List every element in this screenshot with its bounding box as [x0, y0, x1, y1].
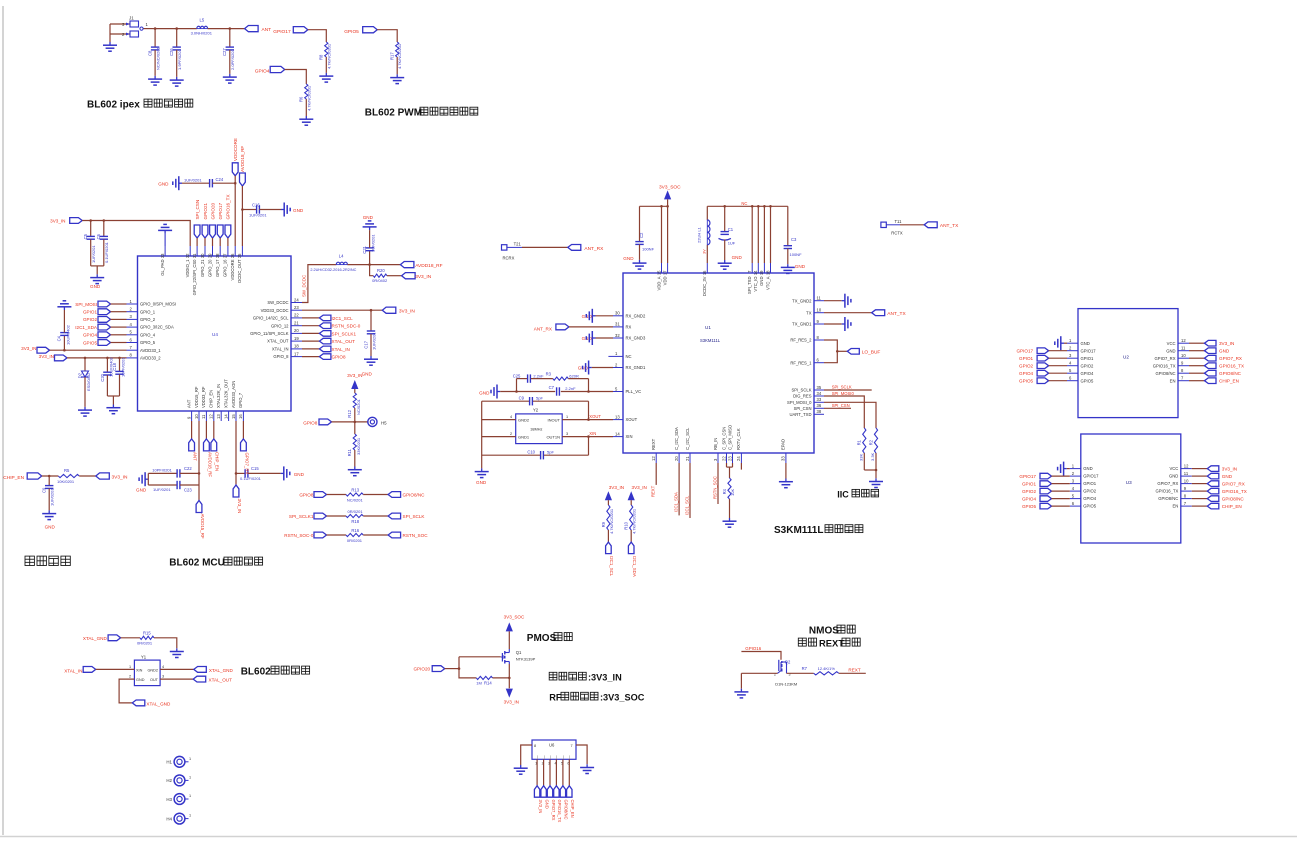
svg-text:R2: R2 [868, 439, 873, 445]
svg-text:11: 11 [201, 414, 206, 419]
wire L4 to AVDD18_RF [347, 263, 400, 266]
svg-text:SPI_TXD: SPI_TXD [747, 277, 752, 294]
svg-text:RSTN_SOC-0: RSTN_SOC-0 [284, 533, 314, 538]
wire 3V3_IN U3 right [1192, 468, 1208, 470]
port I2C1_SCL right [319, 315, 353, 321]
svg-text:ANT_RX: ANT_RX [534, 326, 552, 331]
port GPIO7_RX bottom [241, 439, 250, 475]
svg-text:GPIO21: GPIO21 [203, 202, 208, 219]
wire R18 right [363, 515, 388, 517]
svg-text:3V3_IN: 3V3_IN [538, 800, 543, 814]
wire J1 to net [110, 24, 155, 42]
wire SPI_SCLK1 [302, 332, 319, 334]
port GPIO7_RX u6 [547, 786, 556, 821]
svg-text:3V3_IN: 3V3_IN [112, 475, 129, 481]
port GPIO16_TX top [225, 194, 231, 238]
svg-text:RX_GND2: RX_GND2 [626, 313, 646, 318]
port RSTN_SOC-0 left [284, 532, 326, 538]
resistor R5 [57, 468, 79, 484]
capacitor C15 [236, 466, 281, 481]
svg-text:GND2: GND2 [518, 417, 530, 422]
wire SPI_CSN [824, 402, 876, 428]
wire R8 to ground [325, 57, 327, 73]
resistor R4 [722, 478, 735, 499]
svg-text:U3: U3 [1126, 480, 1132, 485]
wire GPIO8/NC U2 right [1189, 372, 1205, 374]
svg-text:1UF/0201: 1UF/0201 [249, 213, 267, 218]
svg-text:GPIO_12: GPIO_12 [271, 323, 289, 328]
svg-text:S3KM111L: S3KM111L [700, 338, 721, 343]
port ANT_TX tp [924, 222, 959, 229]
svg-text:DCDC_OUT: DCDC_OUT [237, 259, 242, 283]
svg-text:EN: EN [1172, 504, 1178, 509]
wire RSTN_SOC-0 left [327, 534, 347, 536]
title BL602 ipex RF circuit [87, 99, 193, 110]
port ANT_TX [872, 310, 907, 317]
wire U6 pin4 [555, 759, 557, 785]
wire GPIO17 U3 left [1052, 475, 1070, 477]
wire pin36 [824, 407, 851, 409]
svg-text:5pF: 5pF [547, 450, 554, 455]
port AVDD15_RF [196, 501, 205, 539]
svg-text:C4: C4 [57, 335, 62, 341]
port GPIO20 [413, 666, 444, 672]
svg-text:GPIO_0/SPI_MOSI: GPIO_0/SPI_MOSI [140, 302, 176, 307]
port CHIP_EN U3 right [1207, 503, 1241, 509]
svg-text:GND: GND [136, 487, 147, 492]
svg-text:C5: C5 [83, 233, 88, 239]
svg-text:33: 33 [817, 397, 822, 402]
connector U2 [1067, 309, 1189, 418]
svg-text:C7: C7 [549, 385, 555, 390]
svg-text:XTAL_IN: XTAL_IN [332, 347, 350, 352]
wire SW_DCDC [302, 265, 337, 303]
port GPIO20 top [210, 202, 216, 238]
port XTAL_IN [64, 667, 95, 674]
wire GPIO1 [111, 311, 127, 313]
transistor Q2 D1N-123KM [774, 660, 797, 687]
svg-text:1UF/0201: 1UF/0201 [184, 178, 202, 183]
mounting hole H4 [166, 813, 191, 824]
wire SPI_CSN top [196, 238, 198, 246]
wire GPIO2 U2 left [1049, 365, 1067, 367]
port GPIO8 right [319, 354, 346, 360]
svg-text:GPIO17: GPIO17 [1083, 474, 1099, 479]
resistor R6 [299, 84, 312, 111]
connector J1 [122, 16, 149, 38]
wire arrow to R10 [630, 500, 632, 505]
port 3V3_IN u6 [534, 786, 543, 814]
resistor R9 [601, 505, 614, 534]
ground C17 [362, 356, 378, 377]
svg-text:16: 16 [238, 414, 243, 419]
wire LO_BUF [836, 350, 847, 353]
resistor R16 [346, 528, 363, 543]
svg-text:GND: GND [1219, 349, 1230, 354]
svg-text:GPIO_17: GPIO_17 [215, 259, 220, 277]
port 3V3_IN U3 right [1207, 466, 1237, 472]
svg-text:XOUT: XOUT [626, 417, 638, 422]
svg-text:3: 3 [566, 432, 568, 436]
port GPIO8/NC U3 right [1207, 496, 1244, 502]
svg-text:D2: D2 [77, 372, 82, 378]
label NC [741, 201, 747, 206]
resistor R10 [624, 505, 637, 534]
wire U6 pin7 [576, 745, 587, 764]
port GPIO16_TX U2 right [1205, 363, 1245, 369]
svg-text:SPI_SCLK1: SPI_SCLK1 [332, 331, 357, 336]
wire GPIO7_RX U3 right [1192, 483, 1208, 485]
wire PLL verticals [517, 379, 589, 392]
svg-text:GPIO8/NC: GPIO8/NC [403, 493, 426, 498]
ground C5 C6 [90, 274, 104, 289]
svg-text:4: 4 [510, 415, 512, 419]
svg-text:33: 33 [160, 253, 165, 258]
svg-text:GPIO4: GPIO4 [1022, 496, 1036, 501]
ground xtal [475, 468, 489, 485]
svg-text:GND: GND [623, 256, 634, 261]
svg-text:XTAL32K_OUT: XTAL32K_OUT [223, 379, 228, 408]
ground C4 [57, 301, 71, 310]
svg-text:31: 31 [192, 253, 197, 258]
resistor R11 [347, 434, 361, 456]
port GPIO16_TX U3 right [1207, 488, 1247, 494]
capacitor C17 [363, 310, 376, 356]
ground U6 pin8 [514, 765, 528, 774]
wire GPIO20 top [212, 238, 214, 246]
svg-text:GPIO_4: GPIO_4 [140, 332, 156, 337]
connector U6 [532, 740, 576, 766]
ground C2 [623, 256, 646, 269]
resistor R18 [346, 509, 363, 524]
svg-text:SPI_SCLK: SPI_SCLK [832, 384, 852, 389]
wire junction to R11 [354, 422, 356, 434]
wire GPIO17 to R8 [308, 30, 327, 42]
port RSTN_SDC-0 right [319, 323, 360, 329]
svg-text:ANT: ANT [262, 27, 272, 33]
power 3V3_SOC pmos [504, 615, 525, 632]
ground C20 C18 [106, 405, 120, 414]
svg-text:R17: R17 [390, 52, 395, 60]
wire CHIP_EN U3 right [1192, 505, 1208, 507]
power 3V3_SOC arrow [659, 185, 681, 200]
svg-text:C_I2C_SDA: C_I2C_SDA [674, 427, 679, 450]
port GPIO8/NC U2 right [1205, 370, 1242, 376]
svg-text:19: 19 [759, 270, 764, 275]
svg-text:T11: T11 [895, 219, 903, 224]
svg-text:36: 36 [817, 403, 822, 408]
svg-text:GPIO17: GPIO17 [1019, 474, 1036, 479]
wire join to ground [875, 470, 877, 478]
wire R13 right [363, 494, 388, 496]
svg-text:C20: C20 [100, 373, 105, 381]
wire U6 pin6 [568, 759, 570, 785]
wire C9 to XOUT [588, 401, 590, 419]
svg-text:VDDCORE: VDDCORE [233, 138, 238, 161]
wire VDD33_RF [205, 421, 207, 439]
svg-text:C22: C22 [184, 466, 192, 471]
svg-text:4.7K/NC/0201: 4.7K/NC/0201 [632, 508, 637, 534]
svg-text:11: 11 [1181, 346, 1186, 351]
svg-text:GPIO7_RX: GPIO7_RX [1155, 356, 1176, 361]
wire 3V3_IN U2 right [1189, 342, 1205, 344]
svg-text:VTC_A: VTC_A [765, 276, 770, 290]
wire pins22 23 join [727, 463, 733, 478]
crystal Y2 [482, 408, 563, 444]
svg-text:1UF: 1UF [728, 241, 736, 246]
mounting hole H1 [166, 756, 191, 767]
svg-text:I2C1_SDA: I2C1_SDA [632, 556, 637, 577]
svg-text:NC/NC/0201: NC/NC/0201 [156, 47, 161, 70]
title NMOS switch [809, 625, 855, 636]
svg-text:RB_IN: RB_IN [713, 438, 718, 450]
wire supply pin 764 [763, 206, 765, 263]
port CHIP_EN [3, 473, 41, 481]
wire 3V3_IN pin8 [67, 357, 127, 360]
svg-text:GND: GND [479, 390, 490, 395]
svg-text:1M: 1M [476, 680, 482, 685]
wire GPIO16_TX top [227, 238, 229, 246]
wire 3V3_IN pin7 [50, 349, 127, 352]
svg-text:GPIO17: GPIO17 [1016, 349, 1033, 354]
svg-text:1UF/0201: 1UF/0201 [371, 332, 376, 350]
svg-text:PMOS: PMOS [527, 633, 557, 644]
port GPIO4 U2 left [1019, 370, 1049, 376]
capacitor C7 [549, 385, 576, 396]
wire TX [824, 312, 872, 314]
svg-text:1: 1 [189, 775, 191, 779]
svg-text:10: 10 [1181, 353, 1186, 358]
capacitor C18 [112, 357, 126, 396]
svg-text:AVDD18_RF: AVDD18_RF [240, 146, 245, 172]
svg-text:3V3_SOC: 3V3_SOC [659, 185, 681, 191]
wire XTAL_IN [302, 348, 319, 350]
svg-text:RCTX: RCTX [891, 230, 903, 235]
svg-text:C9: C9 [519, 396, 525, 401]
wire Y1 to XTAL_OUT [160, 678, 193, 680]
wire NC pin1 [608, 355, 613, 357]
wire RSTN_SDC-0 [302, 325, 319, 327]
resistor R17 [390, 42, 403, 69]
port AVDD18_RF top [240, 146, 246, 186]
svg-text:29: 29 [207, 253, 212, 258]
wire CHIP_EN out [213, 421, 215, 439]
svg-text:I2C1_SCL: I2C1_SCL [684, 495, 689, 515]
wire 3V3_IN to VDDIO_1 [82, 219, 190, 246]
testpoint H5 [368, 417, 387, 426]
svg-text:20: 20 [294, 328, 299, 333]
svg-text:R16: R16 [351, 528, 359, 533]
svg-text:GND: GND [795, 264, 806, 269]
svg-text:GPIO5: GPIO5 [344, 29, 359, 35]
capacitor C20 [100, 356, 114, 396]
svg-text:GPIO1: GPIO1 [1081, 356, 1094, 361]
svg-text:3V3_IN: 3V3_IN [609, 485, 624, 490]
ground RX_GND1 [578, 361, 613, 375]
port RSTN_SOC right [388, 532, 428, 538]
svg-text:10PF/0201: 10PF/0201 [121, 357, 126, 377]
svg-text:REXT: REXT [848, 668, 860, 673]
svg-text:14: 14 [753, 270, 758, 275]
svg-text:GND: GND [45, 524, 56, 529]
svg-text:GPIO1: GPIO1 [1083, 481, 1096, 486]
svg-text:Y1: Y1 [141, 655, 147, 660]
wire GND U2 right [1189, 350, 1205, 352]
wire R9 to port [607, 530, 609, 542]
wire GPIO16_TX U2 right [1189, 365, 1205, 367]
svg-text:R3: R3 [546, 371, 552, 376]
svg-text:SW_DCDC: SW_DCDC [267, 300, 288, 305]
svg-text:GPIO8/NC: GPIO8/NC [1155, 371, 1175, 376]
wire to R20 [370, 265, 374, 276]
svg-text:TX: TX [806, 310, 812, 315]
mounting hole H2 [166, 775, 191, 786]
svg-text:GPIO_8: GPIO_8 [273, 354, 289, 359]
svg-text:XTAL_GND: XTAL_GND [83, 636, 108, 641]
svg-text:1UF/0201: 1UF/0201 [153, 487, 171, 492]
wire arrow to R9 [607, 500, 609, 505]
svg-text:TX_GND2: TX_GND2 [792, 298, 812, 303]
svg-text:13: 13 [615, 414, 620, 419]
svg-text:GPIO8/NC: GPIO8/NC [564, 800, 569, 820]
svg-text:GPIO_7: GPIO_7 [238, 392, 243, 408]
capacitor C9 [42, 476, 55, 510]
wire GPIO20 gate [445, 657, 501, 678]
svg-text:12: 12 [1181, 338, 1186, 343]
port GPIO17 [273, 27, 308, 36]
diode D2 [77, 358, 90, 407]
wire R3 to right [568, 378, 588, 380]
svg-text:RSTN_SOC: RSTN_SOC [712, 476, 717, 499]
wire top rail U1 [707, 205, 788, 208]
svg-text:VDDCORE: VDDCORE [230, 259, 235, 280]
svg-text:GND: GND [1169, 474, 1178, 479]
port GPIO2 [83, 317, 111, 323]
port GPIO7_RX U3 right [1207, 481, 1244, 487]
svg-text:R15: R15 [143, 631, 151, 636]
svg-text:3.3K: 3.3K [870, 452, 875, 461]
svg-text:C9: C9 [42, 487, 47, 493]
port SPI_SCLK right [388, 513, 425, 519]
svg-text:VDD33_RF: VDD33_RF [201, 386, 206, 408]
svg-text:1UF/0201: 1UF/0201 [91, 245, 96, 263]
port SPI_CSN top [194, 200, 200, 238]
port ANT bottom [189, 439, 198, 461]
resistor R14 [476, 676, 492, 685]
ground TX_GND1 [824, 317, 851, 331]
svg-text:22: 22 [294, 313, 299, 318]
wire GPIO5 [111, 342, 127, 344]
inductor L5 [191, 18, 213, 36]
svg-text:GPIO_1: GPIO_1 [140, 309, 156, 314]
svg-text:AVDD18_RF: AVDD18_RF [207, 452, 212, 477]
ground R17 [390, 74, 404, 83]
resistor R8 [319, 42, 332, 69]
ground U3 pin1 [1058, 462, 1070, 476]
svg-text:GPIO2: GPIO2 [1083, 489, 1096, 494]
svg-text:C10: C10 [527, 450, 535, 455]
resistor R12 [347, 393, 361, 418]
wire arrow to R12 [354, 389, 356, 393]
port GPIO17 U3 left [1019, 473, 1051, 479]
ground U2 pin1 [1055, 336, 1067, 350]
port AVDD18_RF bottom [204, 439, 213, 477]
svg-text:1: 1 [129, 665, 131, 669]
wire SPI_MOSI [111, 303, 127, 305]
port GPIO8/NC right [388, 492, 425, 498]
svg-text:0.1UF/0201: 0.1UF/0201 [104, 241, 109, 263]
capacitor C27 [222, 29, 235, 74]
svg-text:C_SPI_MISO: C_SPI_MISO [727, 424, 732, 450]
svg-text:GPIO_20: GPIO_20 [207, 259, 212, 277]
capacitor C5 [83, 221, 96, 266]
svg-text:11: 11 [1184, 471, 1189, 476]
svg-text:27: 27 [223, 253, 228, 258]
svg-text:AVDD15_RF: AVDD15_RF [200, 514, 205, 539]
svg-text:33K: 33K [859, 454, 864, 461]
svg-text:S3KM111L: S3KM111L [774, 525, 823, 536]
wire supply pin 758 [757, 206, 759, 263]
wire GPIO7_RX U2 right [1189, 357, 1205, 359]
capacitor C16 [242, 203, 281, 218]
svg-text:GPIO16_TX: GPIO16_TX [1155, 489, 1178, 494]
port GPIO8/NC u6 [560, 786, 569, 820]
port GND U3 right [1207, 473, 1232, 479]
wire R10 to port [630, 530, 632, 542]
wire T11 to ANT_TX [900, 224, 924, 226]
svg-text:38MHz: 38MHz [530, 427, 542, 431]
svg-text:REXT: REXT [651, 485, 656, 497]
svg-text:GPIO4: GPIO4 [1083, 496, 1096, 501]
svg-text:2.2UH/CD32-2016-2R2/NC: 2.2UH/CD32-2016-2R2/NC [310, 268, 356, 272]
svg-text:GPIO8/NC: GPIO8/NC [1222, 497, 1245, 502]
port SPI_SCLK1 right [319, 331, 356, 337]
label GPIO16 nmos [745, 646, 761, 651]
svg-text:NTK3139P: NTK3139P [516, 657, 536, 662]
svg-text:XTAL_IN: XTAL_IN [64, 668, 82, 673]
wire Q2 source [741, 672, 777, 674]
svg-text:GPIO5: GPIO5 [1022, 504, 1036, 509]
svg-text:OUT1N: OUT1N [546, 434, 560, 439]
svg-text:C1: C1 [728, 227, 734, 232]
svg-text:ANT_TX: ANT_TX [887, 311, 906, 317]
svg-text:GPIO2: GPIO2 [1019, 364, 1033, 369]
svg-text:SPI_CSN: SPI_CSN [794, 406, 812, 411]
svg-text:GPIO_3/I2C_SDA: GPIO_3/I2C_SDA [140, 325, 174, 330]
chip U4 BL602 [127, 246, 303, 421]
port GPIO8 left [299, 492, 326, 498]
resistor R2 [868, 428, 877, 461]
svg-text:EN: EN [1170, 378, 1176, 383]
svg-text:XTAL_OUT: XTAL_OUT [332, 339, 356, 344]
svg-text:VDD15_RF: VDD15_RF [194, 386, 199, 408]
wire I2C1_SDA u1 [674, 463, 680, 515]
svg-text:XIN: XIN [626, 434, 633, 439]
wire U6 pin8 [521, 745, 532, 765]
ground C1 [718, 255, 743, 269]
wire pin24 stub [740, 463, 742, 470]
svg-text:RF_RES_1: RF_RES_1 [790, 360, 812, 365]
svg-text:VDDIO_1: VDDIO_1 [185, 259, 190, 278]
svg-text:10UF/0402: 10UF/0402 [66, 324, 71, 345]
wire Q1 to 3V3_IN [508, 664, 510, 688]
svg-text:XTAL_OUT: XTAL_OUT [267, 339, 289, 344]
svg-text:14: 14 [615, 431, 620, 436]
ground U6 pin7 [580, 764, 594, 773]
wire GPIO16 gate nmos [741, 652, 781, 660]
svg-text:23: 23 [294, 305, 299, 310]
wire ANT out [191, 421, 193, 439]
